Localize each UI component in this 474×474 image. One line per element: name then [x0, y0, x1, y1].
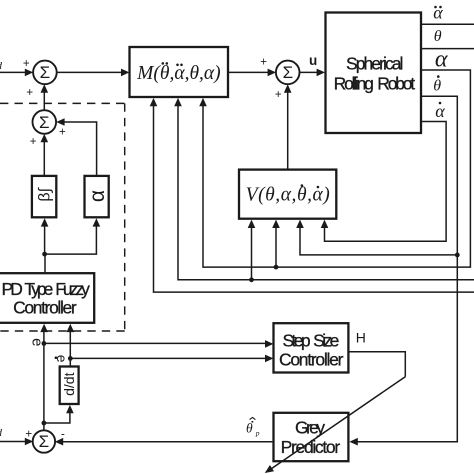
svg-text:+: +: [23, 58, 30, 70]
svg-text:Controller: Controller: [13, 298, 77, 318]
svg-text:M(θ,α,θ,α): M(θ,α,θ,α): [136, 63, 220, 84]
svg-text:H: H: [356, 329, 366, 345]
svg-text:-: -: [61, 428, 65, 440]
svg-text:Rolling Robot: Rolling Robot: [334, 74, 416, 94]
svg-text:θ: θ: [434, 28, 442, 45]
svg-text:Σ: Σ: [39, 432, 50, 451]
svg-text:θ: θ: [433, 77, 441, 94]
svg-text:α: α: [435, 47, 448, 73]
svg-text:+: +: [260, 57, 267, 69]
svg-text:θ: θ: [246, 421, 253, 436]
svg-text:Grey: Grey: [295, 418, 325, 438]
svg-text:+: +: [26, 87, 33, 99]
svg-text:α: α: [86, 190, 109, 202]
svg-text:α: α: [433, 2, 443, 22]
svg-text:d/dt: d/dt: [61, 372, 77, 395]
svg-text:p: p: [255, 429, 260, 438]
svg-text:+: +: [30, 136, 37, 148]
svg-text:+: +: [59, 127, 66, 139]
svg-text:u: u: [309, 53, 317, 68]
svg-text:PD Type Fuzzy: PD Type Fuzzy: [2, 279, 91, 299]
svg-text:Step Size: Step Size: [283, 331, 340, 351]
svg-text:Σ: Σ: [283, 63, 294, 82]
svg-text:Controller: Controller: [279, 349, 344, 369]
svg-text:+: +: [275, 89, 282, 101]
svg-text:e: e: [28, 338, 45, 346]
svg-text:Σ: Σ: [40, 63, 51, 82]
svg-text:β∫: β∫: [37, 186, 54, 201]
svg-text:Σ: Σ: [39, 113, 50, 132]
svg-text:+: +: [25, 429, 32, 441]
svg-text:Predictor: Predictor: [281, 437, 341, 457]
svg-text:Spherical: Spherical: [346, 53, 404, 73]
